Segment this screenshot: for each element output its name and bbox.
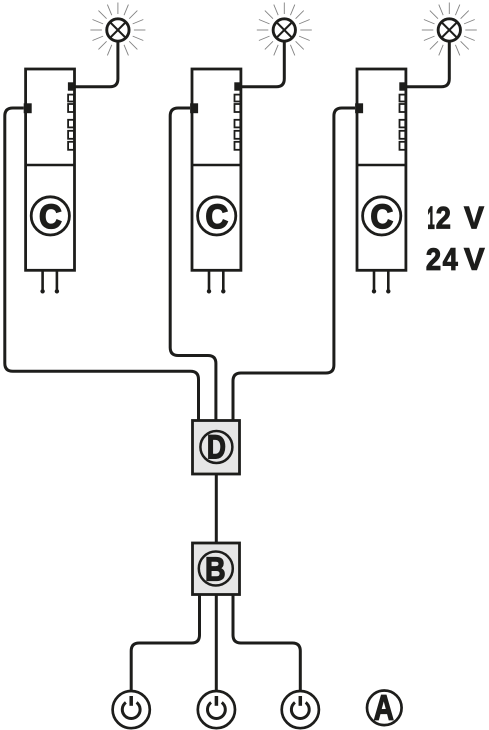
driver C3 mains pins (372, 270, 391, 293)
lamp E3 rays (422, 3, 477, 56)
distributor D box (193, 421, 240, 475)
driver C3 input terminal (355, 103, 363, 113)
wire lamp E2 to driver C2 output (238, 42, 284, 87)
driver C2 connector slots (235, 95, 241, 150)
LED driver C2 body (192, 69, 241, 270)
driver C2 mains pins (207, 270, 226, 293)
lamp E3 (438, 19, 460, 41)
driver C1 output terminal (68, 82, 75, 90)
lamp E1 (107, 19, 129, 41)
lamp E2 rays (257, 3, 312, 56)
wire driver C2 to distributor D (170, 108, 216, 421)
switch S2 (198, 691, 235, 728)
driver C2 output terminal (234, 82, 241, 90)
label D (200, 431, 232, 463)
wire lamp E1 to driver C1 output (72, 42, 118, 87)
label C (driver C2) (198, 197, 236, 235)
driver C1 input terminal (24, 103, 32, 113)
wire box B to switch S3 (233, 595, 300, 691)
driver C1 connector slots (68, 95, 74, 150)
wire box B to switch S2 (215, 595, 218, 691)
lamp E2 (273, 19, 295, 41)
wire driver C1 to distributor D (5, 108, 199, 421)
label C (driver C3) (363, 197, 401, 235)
driver C3 divider (357, 164, 406, 167)
LED driver C1 body (26, 69, 75, 270)
label A (367, 691, 402, 726)
driver C2 input terminal (190, 103, 198, 113)
switch S3 (282, 691, 319, 728)
driver C2 divider (192, 164, 241, 167)
driver C3 output terminal (399, 82, 406, 90)
label C (driver C1) (31, 197, 69, 235)
wire driver C3 to distributor D (233, 108, 355, 421)
wire distributor D to box B (215, 474, 218, 543)
voltage label 12 V (428, 207, 484, 229)
LED driver C3 body (357, 69, 406, 270)
lamp E1 rays (90, 3, 145, 56)
box B (193, 543, 240, 595)
wire box B to switch S1 (131, 595, 199, 691)
voltage label 24 V (427, 248, 485, 270)
driver C1 mains pins (40, 270, 59, 293)
label B (199, 552, 233, 586)
wire lamp E3 to driver C3 output (403, 42, 449, 87)
driver C3 connector slots (400, 95, 406, 150)
driver C1 divider (26, 164, 75, 167)
switch S1 (113, 691, 150, 728)
